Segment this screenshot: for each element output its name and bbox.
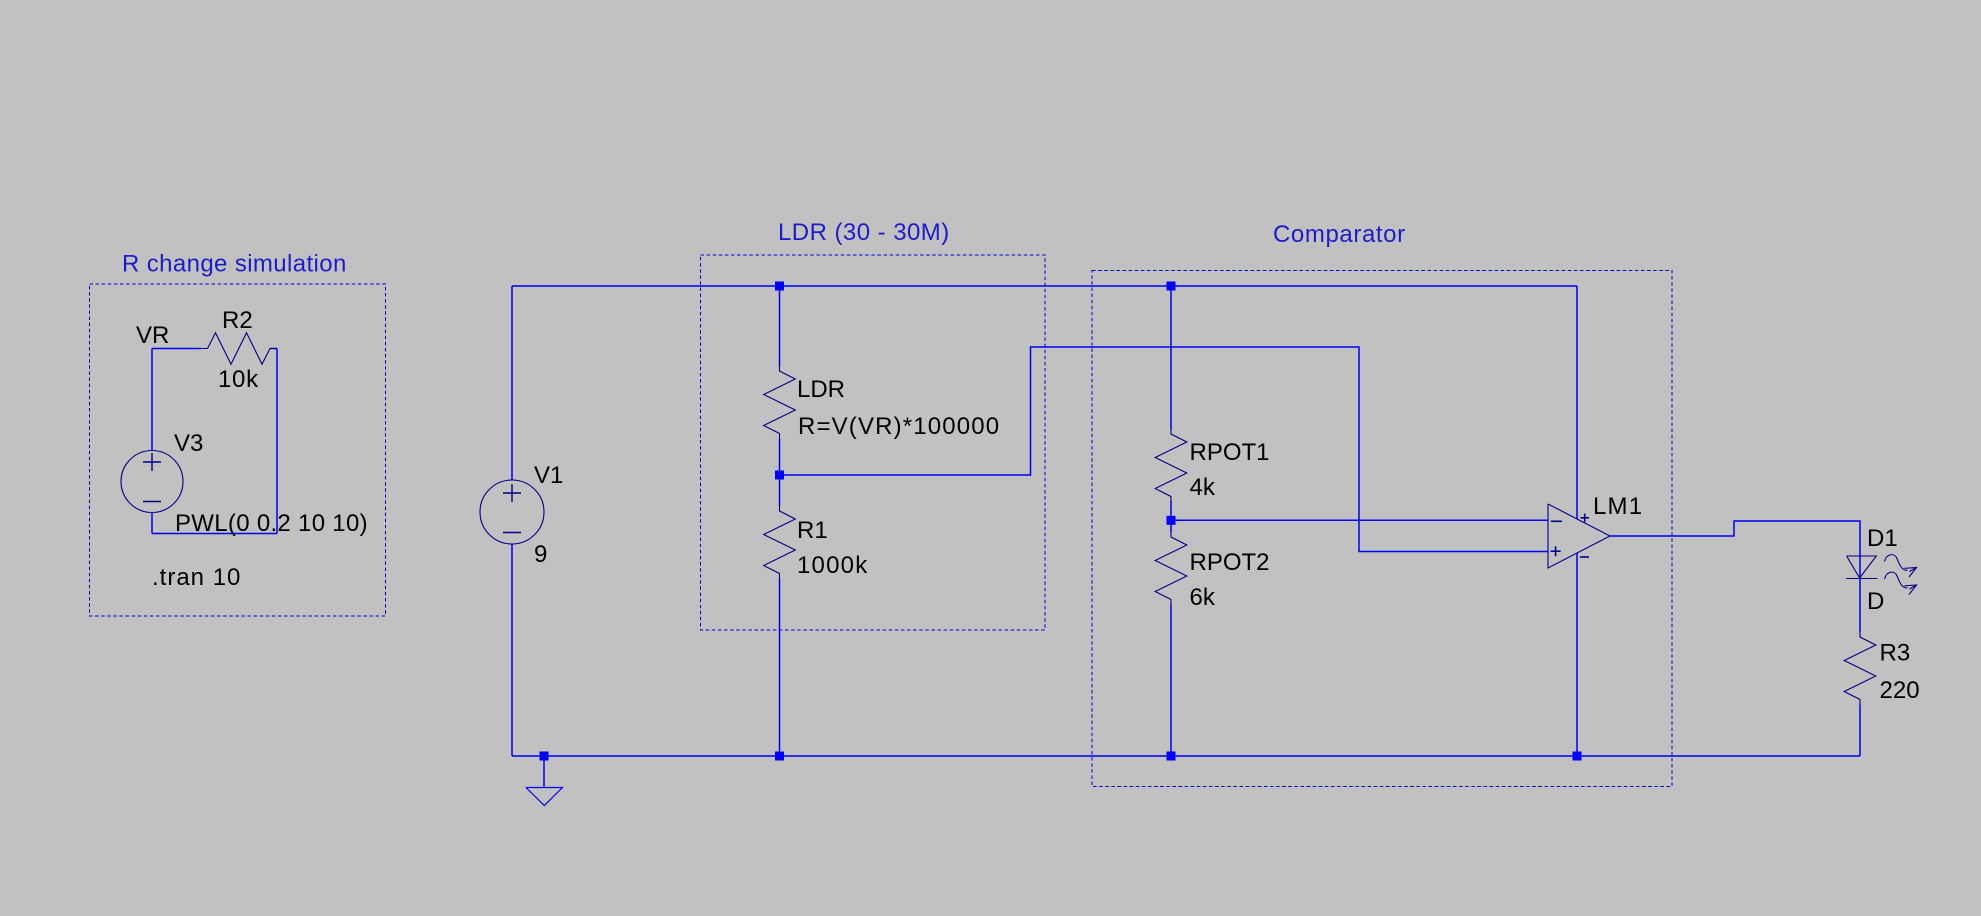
svg-text:V3: V3 (174, 430, 203, 457)
svg-text:R change simulation: R change simulation (122, 251, 347, 278)
svg-text:R1: R1 (797, 517, 828, 544)
svg-text:R2: R2 (222, 307, 253, 334)
svg-text:6k: 6k (1190, 584, 1216, 611)
svg-text:VR: VR (136, 322, 169, 349)
svg-text:D: D (1867, 588, 1884, 615)
svg-text:R=V(VR)*100000: R=V(VR)*100000 (798, 413, 1000, 440)
svg-text:LDR (30 - 30M): LDR (30 - 30M) (778, 219, 950, 246)
svg-text:R3: R3 (1880, 640, 1911, 667)
svg-text:220: 220 (1880, 677, 1920, 704)
svg-text:.tran 10: .tran 10 (152, 564, 241, 591)
svg-text:1000k: 1000k (797, 552, 868, 579)
svg-text:D1: D1 (1867, 525, 1898, 552)
svg-text:LM1: LM1 (1593, 493, 1643, 520)
svg-text:V1: V1 (534, 462, 563, 489)
svg-text:RPOT2: RPOT2 (1190, 549, 1270, 576)
svg-text:LDR: LDR (797, 376, 845, 403)
svg-text:RPOT1: RPOT1 (1190, 439, 1270, 466)
svg-text:10k: 10k (218, 366, 259, 393)
svg-text:PWL(0 0.2 10 10): PWL(0 0.2 10 10) (175, 510, 368, 537)
svg-text:4k: 4k (1190, 474, 1216, 501)
svg-text:9: 9 (534, 541, 547, 568)
svg-text:Comparator: Comparator (1273, 221, 1406, 248)
